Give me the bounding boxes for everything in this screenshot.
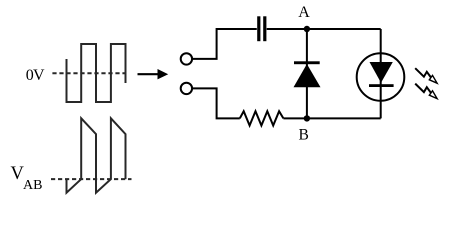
svg-text:B: B — [299, 127, 309, 144]
svg-text:AB: AB — [23, 178, 42, 193]
svg-text:A: A — [298, 4, 310, 21]
svg-text:0V: 0V — [26, 67, 45, 84]
